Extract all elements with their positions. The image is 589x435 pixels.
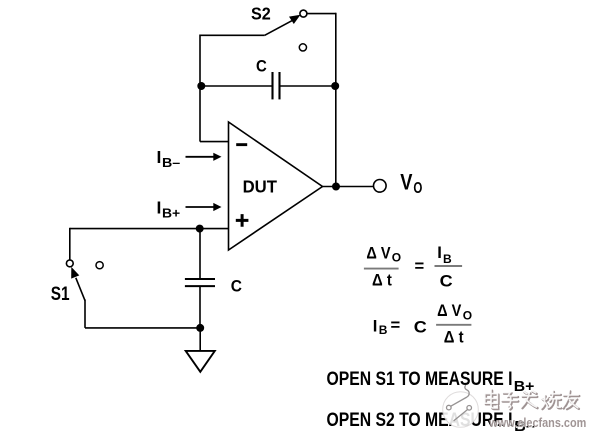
output terminal circle	[374, 180, 387, 193]
junction dot ground node	[196, 324, 204, 332]
wire top cap left	[200, 85, 272, 87]
svg-text:B+: B+	[162, 205, 181, 220]
wire output	[323, 186, 374, 188]
svg-text:DUT: DUT	[243, 177, 278, 197]
svg-text:www.elecfans.com: www.elecfans.com	[488, 415, 586, 430]
svg-text:Δ t: Δ t	[372, 270, 392, 289]
svg-text:V: V	[400, 170, 412, 195]
ground symbol	[186, 351, 215, 372]
wire right vertical rail	[335, 13, 337, 187]
wire feedback into inverting input	[200, 141, 228, 143]
wire plus-input horizontal	[70, 228, 228, 230]
wire S1 left vertical	[69, 228, 71, 260]
wire cap to bottom rail	[199, 287, 201, 328]
op-amp minus input sign	[236, 143, 247, 146]
svg-text:O: O	[392, 251, 401, 265]
svg-text:I: I	[157, 147, 162, 167]
svg-text:C: C	[231, 276, 242, 295]
svg-text:S2: S2	[251, 4, 271, 24]
switch S2 moving contact circle	[300, 10, 307, 17]
op-amp plus input sign	[236, 214, 249, 227]
wire ground stem	[199, 328, 201, 350]
svg-text:=: =	[391, 315, 401, 334]
wire S2 left horizontal	[200, 34, 265, 36]
svg-text:Δ V: Δ V	[437, 301, 461, 320]
svg-text:O: O	[463, 308, 472, 322]
watermark chinese text 电子发烧友 (embossed stroke approximation)	[485, 390, 580, 410]
current arrow IB+	[186, 206, 215, 208]
svg-text:C: C	[256, 56, 267, 75]
svg-text:B–: B–	[162, 155, 180, 170]
svg-text:S1: S1	[51, 283, 70, 305]
watermark logo node circle 2	[467, 406, 472, 411]
watermark logo haze circle	[443, 392, 479, 428]
svg-text:=: =	[415, 256, 425, 275]
op-amp U1 DUT triangle	[229, 122, 323, 250]
svg-text:C: C	[414, 318, 427, 337]
junction dot plus node	[196, 225, 204, 233]
watermark logo lower line	[454, 410, 468, 421]
capacitor C1 left plate	[271, 72, 273, 99]
svg-text:Δ V: Δ V	[366, 243, 390, 262]
switch S1 blade arrowhead	[71, 267, 79, 279]
svg-text:I: I	[373, 316, 378, 335]
switch S2 blade	[265, 20, 294, 36]
wire bottom horizontal	[85, 327, 200, 329]
svg-text:B: B	[443, 252, 452, 266]
svg-text:I: I	[437, 243, 442, 262]
watermark logo swoosh hook	[465, 385, 469, 397]
svg-text:O: O	[413, 180, 422, 197]
svg-text:OPEN S1 TO MEASURE I: OPEN S1 TO MEASURE I	[327, 369, 513, 390]
junction dot top-right	[331, 82, 339, 90]
switch S1 blade	[76, 278, 85, 301]
junction dot output node	[332, 183, 340, 191]
svg-text:C: C	[440, 272, 453, 291]
wire plus node down to cap	[199, 229, 201, 279]
switch S1 fixed contact circle	[66, 260, 73, 267]
wire S2 to right rail	[307, 13, 336, 15]
svg-text:B: B	[379, 323, 388, 337]
capacitor C1 right plate	[278, 72, 280, 99]
capacitor C2 bottom plate	[185, 285, 215, 287]
switch S2 blade arrowhead	[289, 15, 301, 24]
svg-text:OPEN S2 TO MEASURE I: OPEN S2 TO MEASURE I	[327, 410, 513, 431]
wire top cap right	[281, 85, 336, 87]
switch S1 open contact circle	[96, 262, 103, 269]
svg-text:I: I	[157, 197, 162, 217]
current arrow IB-	[186, 156, 215, 158]
switch S2 open contact circle	[299, 44, 306, 51]
wire left vertical (feedback left rail)	[199, 35, 201, 142]
junction dot top-left	[197, 82, 205, 90]
wire S1 bottom stub	[84, 300, 86, 328]
capacitor C2 top plate	[185, 278, 215, 280]
watermark logo swoosh diagonal	[451, 397, 467, 406]
svg-text:Δ t: Δ t	[444, 327, 464, 346]
watermark logo node circle 1	[447, 405, 452, 410]
